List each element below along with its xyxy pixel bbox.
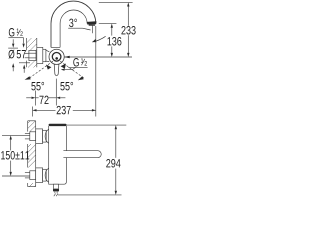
body top cap: [49, 124, 67, 126]
G1/2 right underline and leader: [68, 66, 87, 68]
dim text 150+-11: [1, 151, 29, 160]
label dia57: O-slash: [8, 50, 14, 59]
centerline right: [64, 56, 132, 58]
swivel dashed left: [29, 61, 53, 78]
ext line spout top: [99, 1, 133, 3]
spout plan: [63, 151, 101, 158]
swivel arrow left: [46, 65, 51, 70]
ext line lever center: [55, 79, 57, 106]
top union boss: [45, 129, 49, 143]
spout joint line: [51, 46, 60, 48]
lever stub: [54, 184, 59, 189]
label G1/2 left: 2: [20, 31, 22, 36]
lever stub cap: [53, 189, 59, 191]
escutcheon: [37, 47, 43, 63]
dim 233 line and arrows: [127, 6, 129, 25]
label dia57: 57: [17, 50, 26, 58]
adapter ring: [43, 49, 46, 61]
top union stub: [25, 132, 30, 134]
ext line wall lower: [34, 91, 36, 106]
body cylinder: [49, 126, 67, 184]
dim text 55deg right: [60, 82, 73, 91]
dim text 237: [57, 106, 71, 115]
swivel dash end arrow left: [25, 76, 31, 80]
top union escutcheon: [36, 129, 43, 144]
ext line outlet vertical: [95, 26, 97, 117]
dim 294 lines and arrows: [66, 124, 126, 126]
aerator outlet: [87, 21, 97, 24]
bottom union nut: [30, 171, 36, 180]
dia 57 dimension arrows: [12, 39, 14, 43]
top union ring: [43, 130, 47, 142]
swivel dashed right: [60, 61, 84, 78]
dim text 233: [121, 26, 135, 35]
label G1/2 right: G: [73, 58, 78, 66]
cone: [46, 50, 49, 52]
label G1/2 right: slash: [82, 59, 85, 65]
dim 136 line and arrows: [111, 27, 113, 35]
wall section: [26, 38, 28, 50]
label G1/2 left: 1: [17, 29, 19, 33]
bottom union ring: [43, 169, 47, 181]
dim 72 arrows: [26, 97, 31, 99]
label G1/2 left: slash: [17, 29, 20, 35]
3deg underline and leader: [68, 27, 82, 29]
lever: [54, 64, 59, 75]
aerator step: [89, 25, 95, 26]
wall section: [27, 121, 29, 132]
label 3deg: [69, 19, 77, 28]
dim text 72: [39, 96, 48, 104]
swivel arrow right: [61, 64, 66, 69]
label G1/2 right: 1: [81, 58, 83, 62]
dim text 136: [107, 37, 121, 46]
G1/2 left underline and leader: [8, 37, 23, 39]
label G1/2 left: G: [9, 28, 14, 37]
bottom union stub: [25, 171, 30, 173]
label G1/2 right: 2: [85, 61, 87, 66]
aerator ticks: [54, 191, 56, 193]
dim text 55deg left: [31, 82, 44, 91]
dim text 294: [106, 159, 120, 168]
top union nut: [30, 132, 36, 141]
bottom union boss: [45, 168, 49, 182]
ext line 237 left: [32, 107, 34, 117]
union nut: [29, 50, 36, 60]
swivel dash end arrow right: [78, 76, 84, 80]
body circle: [49, 49, 64, 64]
dim 237 line and arrows: [33, 109, 56, 111]
dim 150+-11 lines and arrows: [2, 134, 30, 136]
spout tube outer: [51, 1, 96, 47]
spout tube inner: [60, 10, 87, 47]
ext line outlet level: [99, 23, 117, 25]
bottom union escutcheon: [36, 168, 43, 183]
union stub: [25, 52, 29, 54]
